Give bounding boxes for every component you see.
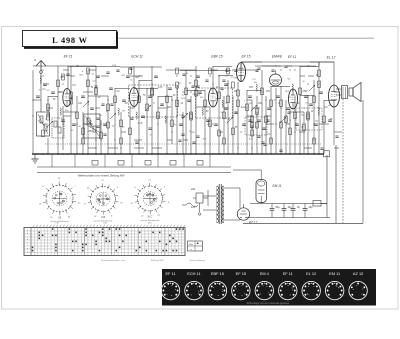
- wire transformer primary leads: [203, 195, 216, 197]
- coil L4: [60, 108, 61, 115]
- svg-text:185V: 185V: [87, 131, 93, 133]
- svg-text:Drucktastenschalter v. vorn: Drucktastenschalter v. vorn: [101, 259, 125, 262]
- wave switch wafer II: [84, 180, 124, 222]
- svg-text:50µ: 50µ: [275, 206, 280, 209]
- trimmer T2: [83, 101, 89, 107]
- svg-text:90V: 90V: [266, 91, 271, 93]
- resistor R24: [246, 104, 249, 111]
- capacitor C34: [72, 124, 76, 126]
- socket EF11: [279, 271, 297, 300]
- resistor R35: [313, 96, 316, 103]
- svg-text:0,02: 0,02: [241, 107, 246, 109]
- svg-text:EL 12: EL 12: [306, 271, 316, 276]
- resistor R13: [157, 112, 160, 119]
- output transformer: [342, 86, 348, 99]
- components between heater rails: [52, 154, 210, 167]
- svg-text:ECH 11: ECH 11: [131, 55, 143, 59]
- wire right edge drop 3: [342, 99, 344, 223]
- svg-text:AZ 12: AZ 12: [248, 221, 258, 225]
- junction dots scatter: [32, 65, 319, 148]
- capacitor C17: [214, 124, 218, 126]
- wave switch wafer III: [130, 180, 170, 222]
- coil block L2 switch: [52, 118, 64, 138]
- socket EL12: [302, 271, 320, 300]
- wire antenna down: [40, 70, 42, 112]
- svg-text:d: d: [27, 239, 28, 241]
- svg-text:EM 11: EM 11: [329, 271, 340, 276]
- capacitor C30: [319, 92, 323, 94]
- resistor R7: [107, 104, 110, 111]
- svg-text:II B: II B: [103, 223, 107, 225]
- tube EF15 envelope: [237, 63, 246, 82]
- svg-text:2M: 2M: [199, 97, 203, 99]
- filter rail: [247, 217, 330, 219]
- resistor R3: [70, 92, 73, 99]
- antenna coil block L1: [37, 112, 50, 136]
- capacitor C15: [198, 92, 202, 94]
- svg-text:30V: 30V: [249, 87, 254, 89]
- wire transformer secondary bottom: [224, 219, 240, 221]
- capacitor C39: [262, 128, 266, 130]
- short horizontal connects scatter: [33, 66, 342, 148]
- resistor R22: [227, 96, 230, 103]
- heater rail lower: [37, 172, 231, 174]
- resistor R18: [195, 80, 198, 87]
- magic eye EM4 envelope: [270, 70, 282, 86]
- wire right edge drop 1: [326, 155, 328, 218]
- svg-text:EM4/E: EM4/E: [272, 55, 283, 59]
- svg-text:offen: offen: [189, 244, 193, 246]
- svg-text:0,05: 0,05: [158, 87, 163, 89]
- trimmer T1: [47, 121, 53, 127]
- capacitor C37: [154, 76, 158, 78]
- svg-text:EM 11: EM 11: [273, 184, 282, 188]
- svg-text:EF 15: EF 15: [242, 55, 251, 59]
- svg-text:e: e: [27, 242, 28, 244]
- svg-text:EF 11: EF 11: [288, 55, 296, 59]
- extra tiny labels scatter: [38, 65, 331, 141]
- resistor R17: [190, 112, 193, 119]
- capacitor C24: [276, 96, 280, 98]
- resistor R42: [129, 128, 132, 135]
- svg-text:c: c: [27, 236, 28, 238]
- resistor R20: [218, 92, 221, 99]
- socket EBF15: [208, 271, 226, 300]
- tuning indicator EM11 envelope: [256, 180, 267, 204]
- svg-text:Zeichenerklärung: Zeichenerklärung: [189, 260, 204, 262]
- svg-text:III C: III C: [148, 215, 153, 219]
- resistor R2: [57, 80, 60, 87]
- tube socket chart banner: [161, 269, 376, 306]
- resistor R45: [232, 128, 235, 135]
- resistor R47: [303, 124, 306, 131]
- resistor R46: [289, 128, 292, 135]
- coil L9: [202, 108, 203, 115]
- resistor R15: [176, 100, 179, 107]
- svg-text:0,15: 0,15: [138, 123, 143, 125]
- resistor R37: [318, 81, 321, 88]
- capacitor C10: [148, 96, 152, 98]
- wire right edge drop 2: [335, 145, 337, 223]
- socket EF11: [161, 271, 179, 300]
- resistor R28: [265, 116, 268, 123]
- coil L6: [118, 108, 119, 115]
- wave switch wafer I: [39, 178, 82, 223]
- socket EM4: [255, 271, 273, 300]
- resistor R19: [204, 100, 207, 107]
- trimmer T5: [182, 113, 188, 119]
- svg-text:von der Schalterseite: von der Schalterseite: [50, 220, 70, 223]
- wire transformer secondary top: [224, 187, 240, 189]
- resistor R16: [185, 88, 188, 95]
- tube EL12 envelope: [329, 85, 340, 107]
- coil L5: [90, 120, 91, 127]
- mains switch and fuse block: [190, 188, 208, 215]
- resistor R12: [151, 88, 154, 95]
- svg-text:Stellung UKW: Stellung UKW: [151, 259, 164, 262]
- capacitor C2: [61, 120, 65, 122]
- capacitor C19: [234, 112, 238, 114]
- svg-text:0,1: 0,1: [221, 112, 224, 114]
- B+ rail from rectifier: [250, 203, 327, 205]
- svg-text:2M: 2M: [121, 111, 125, 113]
- svg-text:EF 11: EF 11: [64, 55, 73, 59]
- resistor R5: [87, 80, 90, 87]
- extra resistors scatter: [47, 68, 316, 144]
- svg-text:1M: 1M: [255, 113, 258, 115]
- capacitor C6: [103, 124, 107, 126]
- capacitor C20: [242, 124, 246, 126]
- top rail segments: [33, 62, 334, 66]
- svg-text:21: 21: [147, 180, 150, 182]
- trimmer T7: [251, 105, 257, 111]
- coil L13: [318, 108, 319, 115]
- trimmer T4: [145, 105, 151, 111]
- switch contact table: [24, 223, 185, 256]
- capacitor C25: [286, 108, 290, 110]
- wire speaker leads: [336, 88, 342, 90]
- capacitor C33: [43, 84, 47, 86]
- capacitor C28: [309, 104, 313, 106]
- svg-text:EF 15: EF 15: [236, 271, 246, 276]
- title box L 498 W: [23, 31, 118, 49]
- coil L7: [136, 112, 137, 119]
- svg-text:II B: II B: [101, 215, 105, 219]
- resistor R41: [100, 132, 103, 139]
- svg-text:III C: III C: [148, 223, 152, 225]
- tube EF11 envelope: [63, 89, 71, 107]
- capacitor C29: [314, 124, 318, 126]
- resistor R25: [251, 116, 254, 123]
- svg-text:h: h: [27, 252, 28, 254]
- antenna A: [33, 58, 46, 70]
- trimmer T6: [227, 117, 233, 123]
- resistor R26: [256, 108, 259, 115]
- capacitor C32: [36, 96, 40, 98]
- mains cord and plug: [182, 203, 198, 207]
- capacitor C18: [224, 84, 228, 86]
- capacitor C12: [168, 88, 172, 90]
- chassis ground bus: [32, 153, 324, 155]
- resistor R29: [270, 100, 273, 107]
- trimmer T3: [110, 113, 116, 119]
- resistor R10: [138, 96, 141, 103]
- resistor R30: [280, 100, 283, 107]
- AVC dashed rail: [45, 143, 321, 145]
- resistor R36: [318, 70, 321, 77]
- tone block dashed box: [296, 108, 322, 130]
- svg-text:EF 11: EF 11: [165, 271, 175, 276]
- svg-text:1M: 1M: [234, 77, 237, 79]
- resistor R40: [82, 128, 85, 135]
- capacitor C23: [267, 108, 271, 110]
- resistor R4: [76, 112, 79, 119]
- capacitor C27: [304, 96, 308, 98]
- resistor R21: [223, 112, 226, 119]
- capacitor C5: [90, 108, 94, 110]
- svg-text:EF 11: EF 11: [283, 271, 293, 276]
- coil L8: [165, 116, 166, 123]
- loudspeaker: [349, 83, 361, 102]
- svg-text:220: 220: [190, 188, 196, 191]
- resistor R27: [261, 88, 264, 95]
- tube ECH11 envelope: [130, 88, 139, 107]
- svg-text:EBF 15: EBF 15: [211, 55, 222, 59]
- coil L10: [222, 100, 223, 107]
- svg-text:2M: 2M: [248, 103, 252, 105]
- capacitor C22: [257, 120, 261, 122]
- stage wiring horizontals: [48, 62, 336, 112]
- capacitor C31: [328, 120, 332, 122]
- detector block dashed box: [245, 117, 267, 135]
- resistor R11: [146, 104, 149, 111]
- wire EM11 feed: [260, 170, 262, 180]
- bottom return rail: [243, 222, 363, 224]
- capacitor C7: [109, 88, 113, 90]
- svg-text:Wellenschalter (von hinten) S: Wellenschalter (von hinten) Stellung MW: [78, 174, 125, 178]
- IF transformer can I (dashed): [129, 85, 178, 117]
- svg-text:b: b: [27, 233, 28, 235]
- svg-text:200: 200: [257, 103, 263, 105]
- resistor R31: [285, 116, 288, 123]
- wire speaker return: [362, 100, 364, 223]
- resistor R39: [42, 130, 45, 137]
- antenna coupling circle: [40, 71, 43, 74]
- IF transformer can II (dashed): [196, 88, 233, 118]
- wire top rule from title box: [119, 37, 375, 39]
- trimmer T9: [309, 85, 315, 91]
- capacitor C38: [196, 76, 200, 78]
- table legend box: [188, 241, 203, 251]
- svg-text:a: a: [27, 230, 28, 232]
- resistor R9: [120, 120, 123, 127]
- capacitor C35: [96, 76, 100, 78]
- resistor R33: [299, 88, 302, 95]
- svg-text:ECH 11: ECH 11: [187, 271, 200, 276]
- svg-text:AZ 12: AZ 12: [353, 271, 363, 276]
- socket ECH11: [185, 271, 203, 300]
- tube EF11 second envelope: [289, 89, 298, 109]
- coil bank block 2 hatched: [84, 114, 100, 138]
- coil L3: [40, 76, 41, 83]
- capacitor C1: [51, 92, 55, 94]
- component value labels: [42, 75, 333, 133]
- capacitor C3: [66, 74, 70, 76]
- svg-text:A: A: [33, 58, 36, 62]
- capacitor C16: [206, 120, 210, 122]
- svg-text:zu: zu: [190, 249, 192, 251]
- capacitor C36: [126, 76, 130, 78]
- svg-text:g: g: [27, 248, 28, 250]
- svg-text:EBF 15: EBF 15: [211, 271, 224, 276]
- svg-text:2M: 2M: [209, 88, 213, 90]
- power transformer: [217, 184, 224, 224]
- svg-text:250V: 250V: [301, 91, 308, 93]
- tube EBF15 envelope: [209, 88, 218, 107]
- svg-text:1M: 1M: [124, 103, 127, 105]
- svg-text:0,1: 0,1: [289, 97, 292, 99]
- svg-text:EM 4: EM 4: [260, 271, 270, 276]
- socket AZ12: [349, 271, 367, 300]
- svg-text:EL 12: EL 12: [327, 56, 336, 60]
- svg-text:16µ: 16µ: [308, 206, 313, 209]
- svg-text:I B: I B: [58, 216, 61, 220]
- resistor R8: [114, 96, 117, 103]
- capacitor C26: [295, 124, 299, 126]
- heater rail upper: [37, 166, 231, 168]
- capacitor C21: [248, 96, 252, 98]
- trimmer T8: [280, 117, 286, 123]
- rectifier AZ12 envelope: [237, 204, 249, 220]
- resistor R34: [307, 112, 310, 119]
- svg-text:Röhrenlage von der Unterseite: Röhrenlage von der Unterseite gesehen: [247, 302, 290, 305]
- junction dots on ground bus: [36, 153, 319, 154]
- resistor R6: [95, 88, 98, 95]
- bus end component: [324, 151, 330, 157]
- electrolytic capacitor bank: [270, 204, 314, 218]
- coil L12: [292, 84, 293, 91]
- resistor R44: [209, 120, 212, 127]
- svg-text:0,1: 0,1: [305, 103, 308, 105]
- stage wiring verticals: [33, 62, 334, 154]
- extra capacitors scatter: [94, 66, 338, 152]
- capacitor C4: [81, 96, 85, 98]
- capacitor C9: [141, 116, 145, 118]
- capacitor C8: [122, 100, 126, 102]
- svg-text:L 498 W: L 498 W: [52, 36, 88, 45]
- socket EM11: [325, 271, 343, 300]
- svg-text:1M: 1M: [78, 126, 81, 128]
- small parts scatter: [36, 70, 332, 139]
- resistor R14: [166, 96, 169, 103]
- ground symbol left: [32, 154, 39, 163]
- capacitor C13: [179, 124, 183, 126]
- coil L11: [256, 84, 257, 91]
- resistor R43: [171, 120, 174, 127]
- capacitor C11: [160, 104, 164, 106]
- capacitor C14: [187, 100, 191, 102]
- resistor R1: [47, 104, 50, 111]
- socket EF15: [232, 271, 250, 300]
- resistor R38: [323, 116, 326, 123]
- resistor R32: [294, 112, 297, 119]
- resistor R23: [237, 100, 240, 107]
- filter choke: [313, 201, 327, 207]
